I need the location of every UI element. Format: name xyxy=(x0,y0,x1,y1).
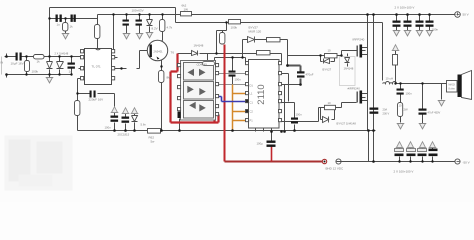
svg-text:100k: 100k xyxy=(32,70,39,74)
svg-text:1k: 1k xyxy=(70,25,74,29)
svg-text:10 uH: 10 uH xyxy=(386,77,393,81)
svg-text:20A: 20A xyxy=(383,108,388,112)
svg-text:CD4049: CD4049 xyxy=(197,63,208,67)
svg-text:220uF 16V: 220uF 16V xyxy=(89,98,104,102)
svg-text:IRFP240: IRFP240 xyxy=(353,38,365,42)
svg-text:2W: 2W xyxy=(404,108,409,112)
svg-text:1N4148: 1N4148 xyxy=(194,44,204,48)
svg-text:#IRF9240: #IRF9240 xyxy=(348,87,361,91)
svg-text:8 ohm: 8 ohm xyxy=(449,89,455,91)
svg-text:100n: 100n xyxy=(406,92,413,96)
svg-text:C1: C1 xyxy=(250,101,254,105)
svg-text:1N4148: 1N4148 xyxy=(344,67,354,71)
svg-text:2 X 100+100 V: 2 X 100+100 V xyxy=(394,170,414,174)
svg-text:1k: 1k xyxy=(37,60,41,64)
svg-text:P1: P1 xyxy=(250,119,254,123)
svg-text:MACK: MACK xyxy=(449,84,456,87)
svg-text:1W: 1W xyxy=(184,8,189,12)
svg-text:100n: 100n xyxy=(296,113,303,117)
svg-text:5.6v: 5.6v xyxy=(141,123,147,127)
svg-text:4.7k: 4.7k xyxy=(167,26,173,30)
svg-text:10: 10 xyxy=(328,101,332,105)
svg-text:470uF: 470uF xyxy=(306,73,314,77)
svg-text:100n: 100n xyxy=(235,78,242,82)
svg-text:100n: 100n xyxy=(105,126,112,130)
svg-text:2N5401: 2N5401 xyxy=(154,50,164,54)
svg-text:C2: C2 xyxy=(250,110,254,114)
svg-text:100n: 100n xyxy=(432,28,439,32)
svg-text:100µ: 100µ xyxy=(257,142,264,146)
svg-text:8k6: 8k6 xyxy=(167,76,172,80)
svg-text:D1: D1 xyxy=(250,84,254,88)
svg-text:8.2V: 8.2V xyxy=(152,27,158,31)
svg-text:100+63V: 100+63V xyxy=(132,9,144,13)
svg-text:1u: 1u xyxy=(69,70,73,74)
svg-text:MUR 120: MUR 120 xyxy=(249,30,262,34)
svg-text:10: 10 xyxy=(399,104,403,108)
svg-text:10: 10 xyxy=(328,49,332,53)
svg-text:BYV27: BYV27 xyxy=(323,68,332,72)
svg-text:2 X 100+100 V: 2 X 100+100 V xyxy=(395,6,415,10)
svg-text:-50 V: -50 V xyxy=(463,161,470,165)
svg-text:50 V: 50 V xyxy=(463,13,469,17)
svg-text:47uF 450V: 47uF 450V xyxy=(428,111,441,115)
svg-text:2 X 1N4148: 2 X 1N4148 xyxy=(55,52,69,56)
svg-text:10µF 16V: 10µF 16V xyxy=(11,62,24,66)
svg-text:BHD 12 VDC: BHD 12 VDC xyxy=(326,167,345,171)
svg-text:BYV27 1N4148: BYV27 1N4148 xyxy=(337,122,357,126)
svg-text:IN: IN xyxy=(1,61,4,65)
svg-text:T6: T6 xyxy=(171,51,175,55)
svg-text:2110: 2110 xyxy=(256,84,267,104)
svg-text:TL 071: TL 071 xyxy=(92,65,102,69)
svg-text:2SC1815: 2SC1815 xyxy=(118,133,130,137)
svg-text:200 V: 200 V xyxy=(383,112,390,116)
svg-text:100k: 100k xyxy=(231,26,238,30)
svg-text:1u: 1u xyxy=(57,23,61,27)
